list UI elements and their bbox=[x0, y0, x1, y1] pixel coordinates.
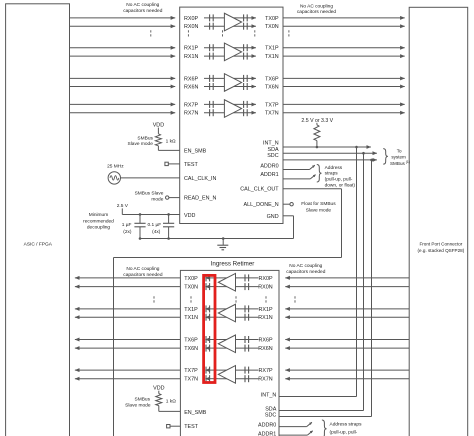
svg-text:RX7N: RX7N bbox=[184, 111, 198, 117]
svg-text:Slave mode: Slave mode bbox=[306, 208, 332, 214]
svg-text:TX0P: TX0P bbox=[184, 276, 198, 282]
svg-text:No AC coupling: No AC coupling bbox=[126, 266, 159, 272]
svg-text:capacitors needed: capacitors needed bbox=[286, 269, 326, 275]
svg-text:RX6P: RX6P bbox=[184, 76, 198, 82]
svg-text:RX6P: RX6P bbox=[259, 338, 273, 344]
svg-text:ADDR1: ADDR1 bbox=[258, 431, 276, 436]
svg-text:Front Port Connector: Front Port Connector bbox=[419, 242, 462, 247]
svg-text:1 kΩ: 1 kΩ bbox=[166, 139, 176, 145]
svg-text:GND: GND bbox=[267, 214, 279, 220]
svg-text:capacitors needed: capacitors needed bbox=[297, 9, 337, 15]
svg-text:No AC coupling: No AC coupling bbox=[300, 4, 333, 10]
svg-text:SDC: SDC bbox=[267, 153, 278, 159]
svg-text:RX0P: RX0P bbox=[259, 276, 273, 282]
svg-text:(pull-up, pull-: (pull-up, pull- bbox=[325, 177, 353, 183]
svg-text:RX1P: RX1P bbox=[184, 46, 198, 52]
svg-text:RX7P: RX7P bbox=[184, 102, 198, 108]
svg-text:RX0P: RX0P bbox=[184, 16, 198, 22]
svg-text:(2x): (2x) bbox=[123, 229, 132, 235]
svg-text:CAL_CLK_IN: CAL_CLK_IN bbox=[184, 176, 216, 182]
svg-text:ASIC / FPGA: ASIC / FPGA bbox=[24, 241, 53, 247]
svg-text:RX1P: RX1P bbox=[259, 307, 273, 313]
svg-text:TX1N: TX1N bbox=[265, 54, 279, 60]
svg-text:(1): (1) bbox=[406, 160, 410, 164]
svg-text:SMBus: SMBus bbox=[137, 135, 153, 141]
svg-text:TX0N: TX0N bbox=[265, 24, 279, 30]
svg-text:decoupling: decoupling bbox=[87, 225, 111, 231]
svg-text:Slave mode: Slave mode bbox=[125, 402, 151, 408]
svg-text:Address: Address bbox=[325, 165, 343, 171]
svg-text:RX1N: RX1N bbox=[184, 54, 198, 60]
svg-text:(pull-up, pull-: (pull-up, pull- bbox=[330, 430, 358, 436]
svg-text:TX6P: TX6P bbox=[265, 76, 279, 82]
svg-text:TX1N: TX1N bbox=[184, 315, 198, 321]
svg-text:TX6N: TX6N bbox=[265, 85, 279, 91]
svg-text:RX7P: RX7P bbox=[259, 368, 273, 374]
svg-text:RX0N: RX0N bbox=[258, 285, 272, 291]
svg-text:straps: straps bbox=[325, 171, 339, 177]
svg-text:RX6N: RX6N bbox=[258, 346, 272, 352]
svg-text:ADDR0: ADDR0 bbox=[260, 163, 278, 169]
svg-text:TX0N: TX0N bbox=[184, 285, 198, 291]
svg-text:CAL_CLK_OUT: CAL_CLK_OUT bbox=[240, 186, 279, 192]
svg-text:capacitors needed: capacitors needed bbox=[123, 272, 163, 278]
svg-text:SMBus: SMBus bbox=[135, 396, 151, 402]
svg-text:2.5 V or 3.3 V: 2.5 V or 3.3 V bbox=[301, 118, 333, 124]
svg-text:VDD: VDD bbox=[153, 122, 164, 128]
svg-text:RX6N: RX6N bbox=[184, 85, 198, 91]
svg-text:TX7P: TX7P bbox=[265, 102, 279, 108]
svg-text:EN_SMB: EN_SMB bbox=[184, 148, 207, 154]
svg-text:SDC: SDC bbox=[265, 412, 276, 418]
svg-text:Slave mode: Slave mode bbox=[128, 141, 154, 147]
svg-text:SMBus Slave: SMBus Slave bbox=[135, 191, 164, 197]
svg-text:TX6N: TX6N bbox=[184, 346, 198, 352]
svg-text:EN_SMB: EN_SMB bbox=[184, 410, 207, 416]
svg-text:Minimum: Minimum bbox=[89, 212, 108, 218]
svg-text:To: To bbox=[397, 149, 402, 154]
svg-text:TX7P: TX7P bbox=[184, 368, 198, 374]
svg-text:TEST: TEST bbox=[184, 162, 198, 168]
svg-text:down, or float): down, or float) bbox=[325, 183, 356, 189]
svg-text:(e.g. stacked QSFP28): (e.g. stacked QSFP28) bbox=[418, 248, 465, 253]
svg-text:mode: mode bbox=[151, 196, 163, 202]
svg-text:TX7N: TX7N bbox=[184, 377, 198, 383]
svg-text:TEST: TEST bbox=[184, 424, 198, 430]
svg-text:25 MHz: 25 MHz bbox=[107, 164, 124, 170]
svg-text:SMBus: SMBus bbox=[390, 161, 406, 166]
svg-text:TX1P: TX1P bbox=[184, 307, 198, 313]
svg-text:INT_N: INT_N bbox=[263, 140, 279, 146]
svg-text:ALL_DONE_N: ALL_DONE_N bbox=[244, 202, 279, 208]
svg-text:TX6P: TX6P bbox=[184, 338, 198, 344]
svg-text:1 kΩ: 1 kΩ bbox=[166, 398, 176, 404]
svg-text:No AC coupling: No AC coupling bbox=[289, 263, 322, 269]
svg-text:system: system bbox=[391, 155, 406, 160]
svg-text:Ingress Retimer: Ingress Retimer bbox=[211, 260, 255, 267]
svg-text:ADDR1: ADDR1 bbox=[260, 172, 278, 178]
svg-text:0.1 µF: 0.1 µF bbox=[147, 222, 161, 228]
svg-text:READ_EN_N: READ_EN_N bbox=[184, 196, 216, 202]
svg-text:TX0P: TX0P bbox=[265, 16, 279, 22]
svg-text:Address straps: Address straps bbox=[330, 422, 363, 428]
svg-text:capacitors needed: capacitors needed bbox=[123, 8, 163, 14]
svg-text:RX1N: RX1N bbox=[258, 315, 272, 321]
svg-text:TX7N: TX7N bbox=[265, 111, 279, 117]
svg-text:No AC coupling: No AC coupling bbox=[126, 2, 159, 8]
svg-text:RX0N: RX0N bbox=[184, 24, 198, 30]
svg-text:Float for SMBus: Float for SMBus bbox=[301, 201, 336, 207]
svg-text:TX1P: TX1P bbox=[265, 46, 279, 52]
svg-text:1 µF: 1 µF bbox=[122, 222, 132, 228]
svg-text:INT_N: INT_N bbox=[261, 392, 277, 398]
svg-text:ADDR0: ADDR0 bbox=[258, 423, 276, 429]
svg-text:2.5 V: 2.5 V bbox=[117, 203, 129, 209]
svg-text:RX7N: RX7N bbox=[258, 377, 272, 383]
svg-text:recommended: recommended bbox=[83, 218, 114, 224]
svg-text:VDD: VDD bbox=[184, 213, 195, 219]
svg-text:(4x): (4x) bbox=[152, 229, 161, 235]
